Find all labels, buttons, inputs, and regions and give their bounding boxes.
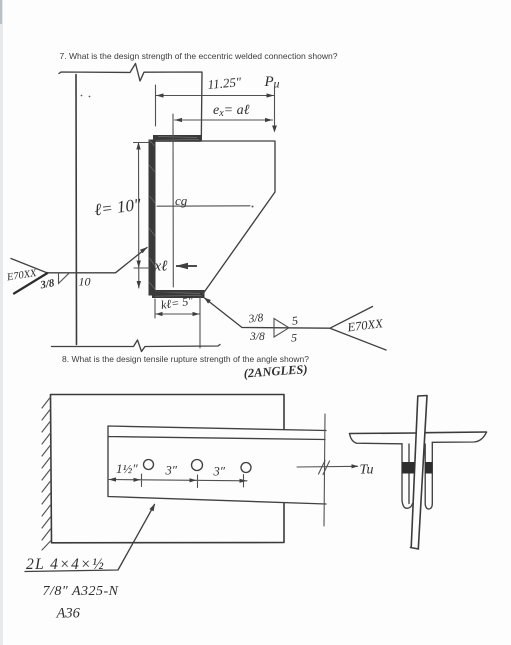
svg-text:Tu: Tu [360,463,374,478]
weld symbol 2 fillet triangles [274,319,289,338]
label Pu [264,74,280,91]
printed question 7 text [60,52,338,61]
svg-text:E70XX: E70XX [346,316,385,334]
label 3" second [213,465,226,479]
column flange vertical line [75,75,78,345]
support hatching on plate left edge [42,397,51,550]
dimension line 11.25" [156,93,274,97]
label 7/8" A325-N [43,584,119,599]
Tu force arrow with break slashes [297,461,359,475]
weld symbol 1 reference line and leader to weld [48,247,148,273]
top weld bar W2 [153,135,202,142]
stray pen dots near column top [81,95,91,98]
svg-text:5: 5 [291,313,299,328]
section flange underside right [432,432,486,442]
label Tu [360,463,374,478]
label 3" first [165,464,178,478]
CG vertical line [172,114,174,287]
label l=10" [93,195,143,220]
svg-text:cg: cg [175,193,188,208]
kl=5" extension lines [155,297,200,348]
label ex = al [213,103,250,119]
svg-text:(2ANGLES): (2ANGLES) [243,362,308,380]
right angle vertical leg in section [425,443,432,510]
svg-text:5: 5 [291,331,297,345]
leader line from 2L label to member [25,504,155,572]
label xl [154,259,168,275]
label 11.25" [207,74,242,92]
weld symbol 1 fillet triangle [59,273,70,284]
svg-text:xℓ: xℓ [154,259,168,275]
handwritten note (2ANGLES) [243,362,308,380]
label kl=5" [160,293,195,312]
section flange underside left [350,434,403,444]
svg-text:8. What is the design tensile: 8. What is the design tensile rupture st… [62,355,309,364]
svg-text:1½″: 1½″ [116,461,138,476]
svg-text:10: 10 [79,275,91,289]
weld symbol 1 size 3/8 [38,277,55,292]
label A36 [56,606,81,622]
left angle vertical leg in section [402,444,413,509]
label 1 1/2" [116,461,138,476]
CG horizontal line [157,206,254,208]
svg-text:7. What is the design strength: 7. What is the design strength of the ec… [60,52,338,61]
bolt hole 1 [144,460,154,470]
label 2L 4x4x1/2 [26,556,105,573]
weld symbol 2 tail [330,307,386,351]
svg-text:2L 4×4×½: 2L 4×4×½ [26,556,105,573]
weld symbol 2 label E70XX [346,316,385,334]
svg-text:A36: A36 [56,606,81,622]
weld symbol 1 length label 10 [79,275,91,289]
weld length dimension line l=10" [134,142,151,289]
WT / plate section: vertical plate edge view [411,396,428,550]
bolt hole 3 [241,463,251,473]
svg-text:ex= aℓ: ex= aℓ [213,103,250,119]
weld symbol 2 leader from bottom weld corner [204,298,330,329]
double angle member outline [108,426,326,504]
vertical weld bar W1 [149,140,156,296]
bolt in section right (dark) [425,462,433,474]
label cg [175,193,188,208]
dimension line ex = al [175,118,273,122]
svg-text:3/8: 3/8 [249,331,265,343]
svg-text:7/8″ A325-N: 7/8″ A325-N [43,584,119,599]
svg-text:3″: 3″ [213,465,226,479]
weld symbol 2 length labels 5 and 5 [291,313,299,344]
svg-text:3″: 3″ [165,464,178,478]
bolt in section left (dark) [402,462,415,474]
column bottom horizontal line with break [52,340,221,352]
bottom weld bar W3 [152,290,205,298]
bolt hole 2 [192,460,203,471]
weld symbol 1 label E70XX [5,268,38,284]
kl=5" dimension line [156,312,200,316]
svg-text:P: P [264,74,274,90]
svg-text:3/8: 3/8 [247,312,264,326]
Pu load arrow [272,87,277,133]
xl arrow pointing left [176,263,198,270]
printed question 8 text [62,355,309,364]
gusset plate rectangle (figure 2) [51,395,285,543]
weld symbol 2 size labels 3/8 over 3/8 [247,312,265,343]
member cut line [324,414,325,526]
svg-text:3/8: 3/8 [38,277,55,292]
section flange (angle horizontal legs) top line [350,432,487,434]
page left edge shadow [0,0,3,645]
column top horizontal line with break symbol [59,64,202,141]
bracket plate outline [155,141,275,295]
weld symbol 1: E70XX tail [11,259,48,294]
svg-text:ℓ= 10″: ℓ= 10″ [93,195,143,220]
dimension extension line at weld left (for 11.25) [155,85,157,126]
svg-text:11.25″: 11.25″ [207,74,242,92]
bolt spacing dimension line [109,474,248,488]
